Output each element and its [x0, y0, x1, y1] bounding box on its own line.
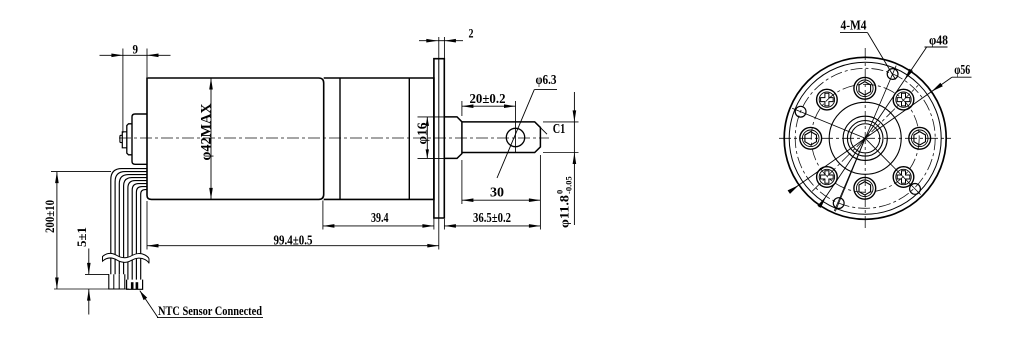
svg-text:99.4±0.5: 99.4±0.5: [274, 234, 313, 249]
svg-text:NTC Sensor Connected: NTC Sensor Connected: [158, 303, 263, 318]
svg-text:5±1: 5±1: [74, 227, 89, 247]
svg-text:-0.05: -0.05: [564, 176, 574, 194]
svg-text:φ42MAX: φ42MAX: [198, 103, 214, 160]
svg-text:C1: C1: [553, 121, 566, 136]
svg-text:φ56: φ56: [954, 63, 970, 78]
svg-text:4-M4: 4-M4: [841, 19, 867, 34]
svg-text:36.5±0.2: 36.5±0.2: [473, 211, 511, 226]
svg-text:20±0.2: 20±0.2: [470, 92, 506, 107]
svg-text:2: 2: [469, 26, 474, 41]
svg-text:9: 9: [133, 42, 139, 57]
svg-text:39.4: 39.4: [371, 211, 389, 226]
svg-text:200±10: 200±10: [42, 200, 57, 233]
svg-text:φ48: φ48: [929, 34, 948, 49]
svg-text:φ11.8: φ11.8: [557, 194, 572, 228]
svg-text:φ6.3: φ6.3: [536, 72, 557, 87]
svg-text:30: 30: [490, 186, 504, 201]
svg-text:φ16: φ16: [415, 123, 430, 145]
